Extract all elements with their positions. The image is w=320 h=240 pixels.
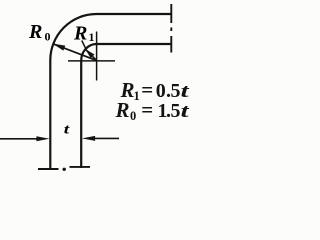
svg-text:R: R	[73, 23, 87, 45]
svg-text:0: 0	[130, 109, 136, 123]
svg-text:R: R	[28, 21, 42, 43]
svg-text:5: 5	[171, 80, 181, 102]
svg-text:5: 5	[171, 100, 181, 122]
svg-text:1: 1	[134, 89, 140, 103]
svg-text:R: R	[115, 98, 130, 122]
svg-text:1: 1	[89, 30, 95, 44]
svg-text:0: 0	[45, 30, 51, 44]
svg-text:=: =	[141, 98, 153, 122]
svg-text:0: 0	[156, 80, 166, 102]
